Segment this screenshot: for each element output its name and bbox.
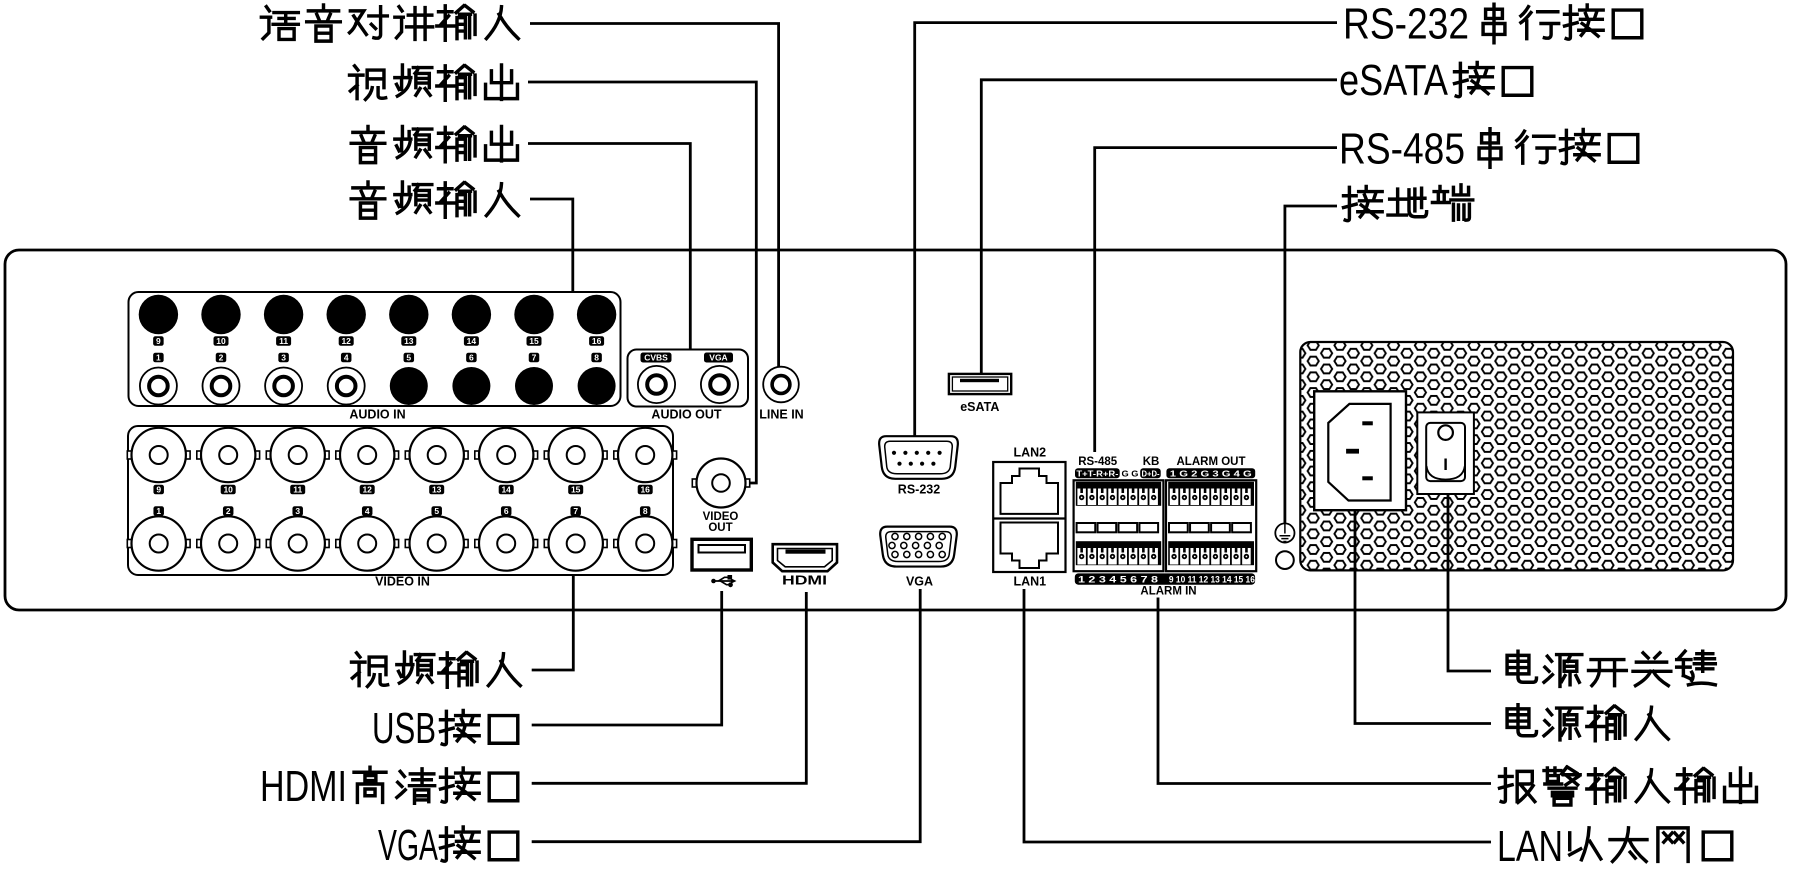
svg-text:G G: G G	[1122, 468, 1139, 478]
svg-text:RS-485: RS-485	[1339, 125, 1465, 174]
svg-text:4: 4	[344, 353, 349, 363]
svg-text:14: 14	[467, 336, 477, 346]
svg-text:15: 15	[571, 485, 581, 495]
svg-text:14: 14	[501, 485, 511, 495]
svg-text:1: 1	[156, 506, 161, 516]
svg-text:11: 11	[279, 336, 288, 346]
svg-text:13: 13	[404, 336, 414, 346]
svg-text:LINE IN: LINE IN	[759, 408, 803, 422]
svg-text:8: 8	[594, 353, 599, 363]
svg-text:7: 7	[532, 353, 537, 363]
svg-text:4: 4	[365, 506, 370, 516]
svg-text:CVBS: CVBS	[644, 353, 668, 363]
svg-text:1: 1	[156, 353, 161, 363]
svg-text:5: 5	[406, 353, 411, 363]
svg-text:9: 9	[156, 485, 161, 495]
svg-text:RS-485: RS-485	[1078, 456, 1118, 468]
svg-text:2: 2	[219, 353, 224, 363]
svg-text:T+T-R+R-: T+T-R+R-	[1076, 468, 1118, 478]
svg-text:RS-232: RS-232	[1343, 0, 1469, 49]
svg-text:VGA: VGA	[709, 353, 727, 363]
svg-text:KB: KB	[1143, 456, 1160, 468]
svg-text:1 2 3 4 5 6 7 8: 1 2 3 4 5 6 7 8	[1078, 575, 1158, 586]
svg-text:13: 13	[432, 485, 442, 495]
svg-text:16: 16	[640, 485, 650, 495]
svg-text:9 10 11 12 13 14 15 16: 9 10 11 12 13 14 15 16	[1169, 575, 1255, 586]
svg-text:8: 8	[643, 506, 648, 516]
svg-text:LAN2: LAN2	[1013, 446, 1046, 460]
svg-text:ALARM OUT: ALARM OUT	[1177, 456, 1246, 468]
svg-text:AUDIO IN: AUDIO IN	[349, 408, 405, 422]
svg-text:12: 12	[362, 485, 372, 495]
svg-text:eSATA: eSATA	[960, 400, 999, 414]
svg-text:3: 3	[281, 353, 286, 363]
svg-text:VGA: VGA	[378, 821, 438, 865]
svg-text:VIDEO IN: VIDEO IN	[375, 575, 430, 589]
svg-text:HDMI: HDMI	[782, 574, 827, 588]
svg-text:ALARM IN: ALARM IN	[1140, 586, 1196, 598]
svg-text:USB: USB	[372, 704, 436, 753]
svg-text:AUDIO OUT: AUDIO OUT	[651, 408, 722, 422]
svg-text:7: 7	[573, 506, 578, 516]
svg-text:6: 6	[469, 353, 474, 363]
svg-text:1 G 2 G 3 G 4 G: 1 G 2 G 3 G 4 G	[1170, 468, 1253, 478]
svg-text:16: 16	[592, 336, 602, 346]
svg-text:HDMI: HDMI	[260, 762, 347, 811]
svg-text:RS-232: RS-232	[898, 483, 940, 497]
svg-text:10: 10	[223, 485, 233, 495]
svg-text:9: 9	[156, 336, 161, 346]
svg-text:VGA: VGA	[906, 575, 933, 589]
svg-text:6: 6	[504, 506, 509, 516]
svg-text:LAN: LAN	[1497, 822, 1563, 865]
svg-text:12: 12	[341, 336, 351, 346]
svg-text:3: 3	[295, 506, 300, 516]
svg-text:LAN1: LAN1	[1013, 575, 1046, 589]
svg-text:10: 10	[216, 336, 226, 346]
svg-text:5: 5	[434, 506, 439, 516]
svg-text:D+D-: D+D-	[1142, 468, 1160, 478]
svg-text:2: 2	[226, 506, 231, 516]
svg-text:eSATA: eSATA	[1339, 56, 1449, 105]
svg-text:OUT: OUT	[708, 522, 732, 534]
svg-text:15: 15	[529, 336, 539, 346]
svg-text:11: 11	[293, 485, 302, 495]
